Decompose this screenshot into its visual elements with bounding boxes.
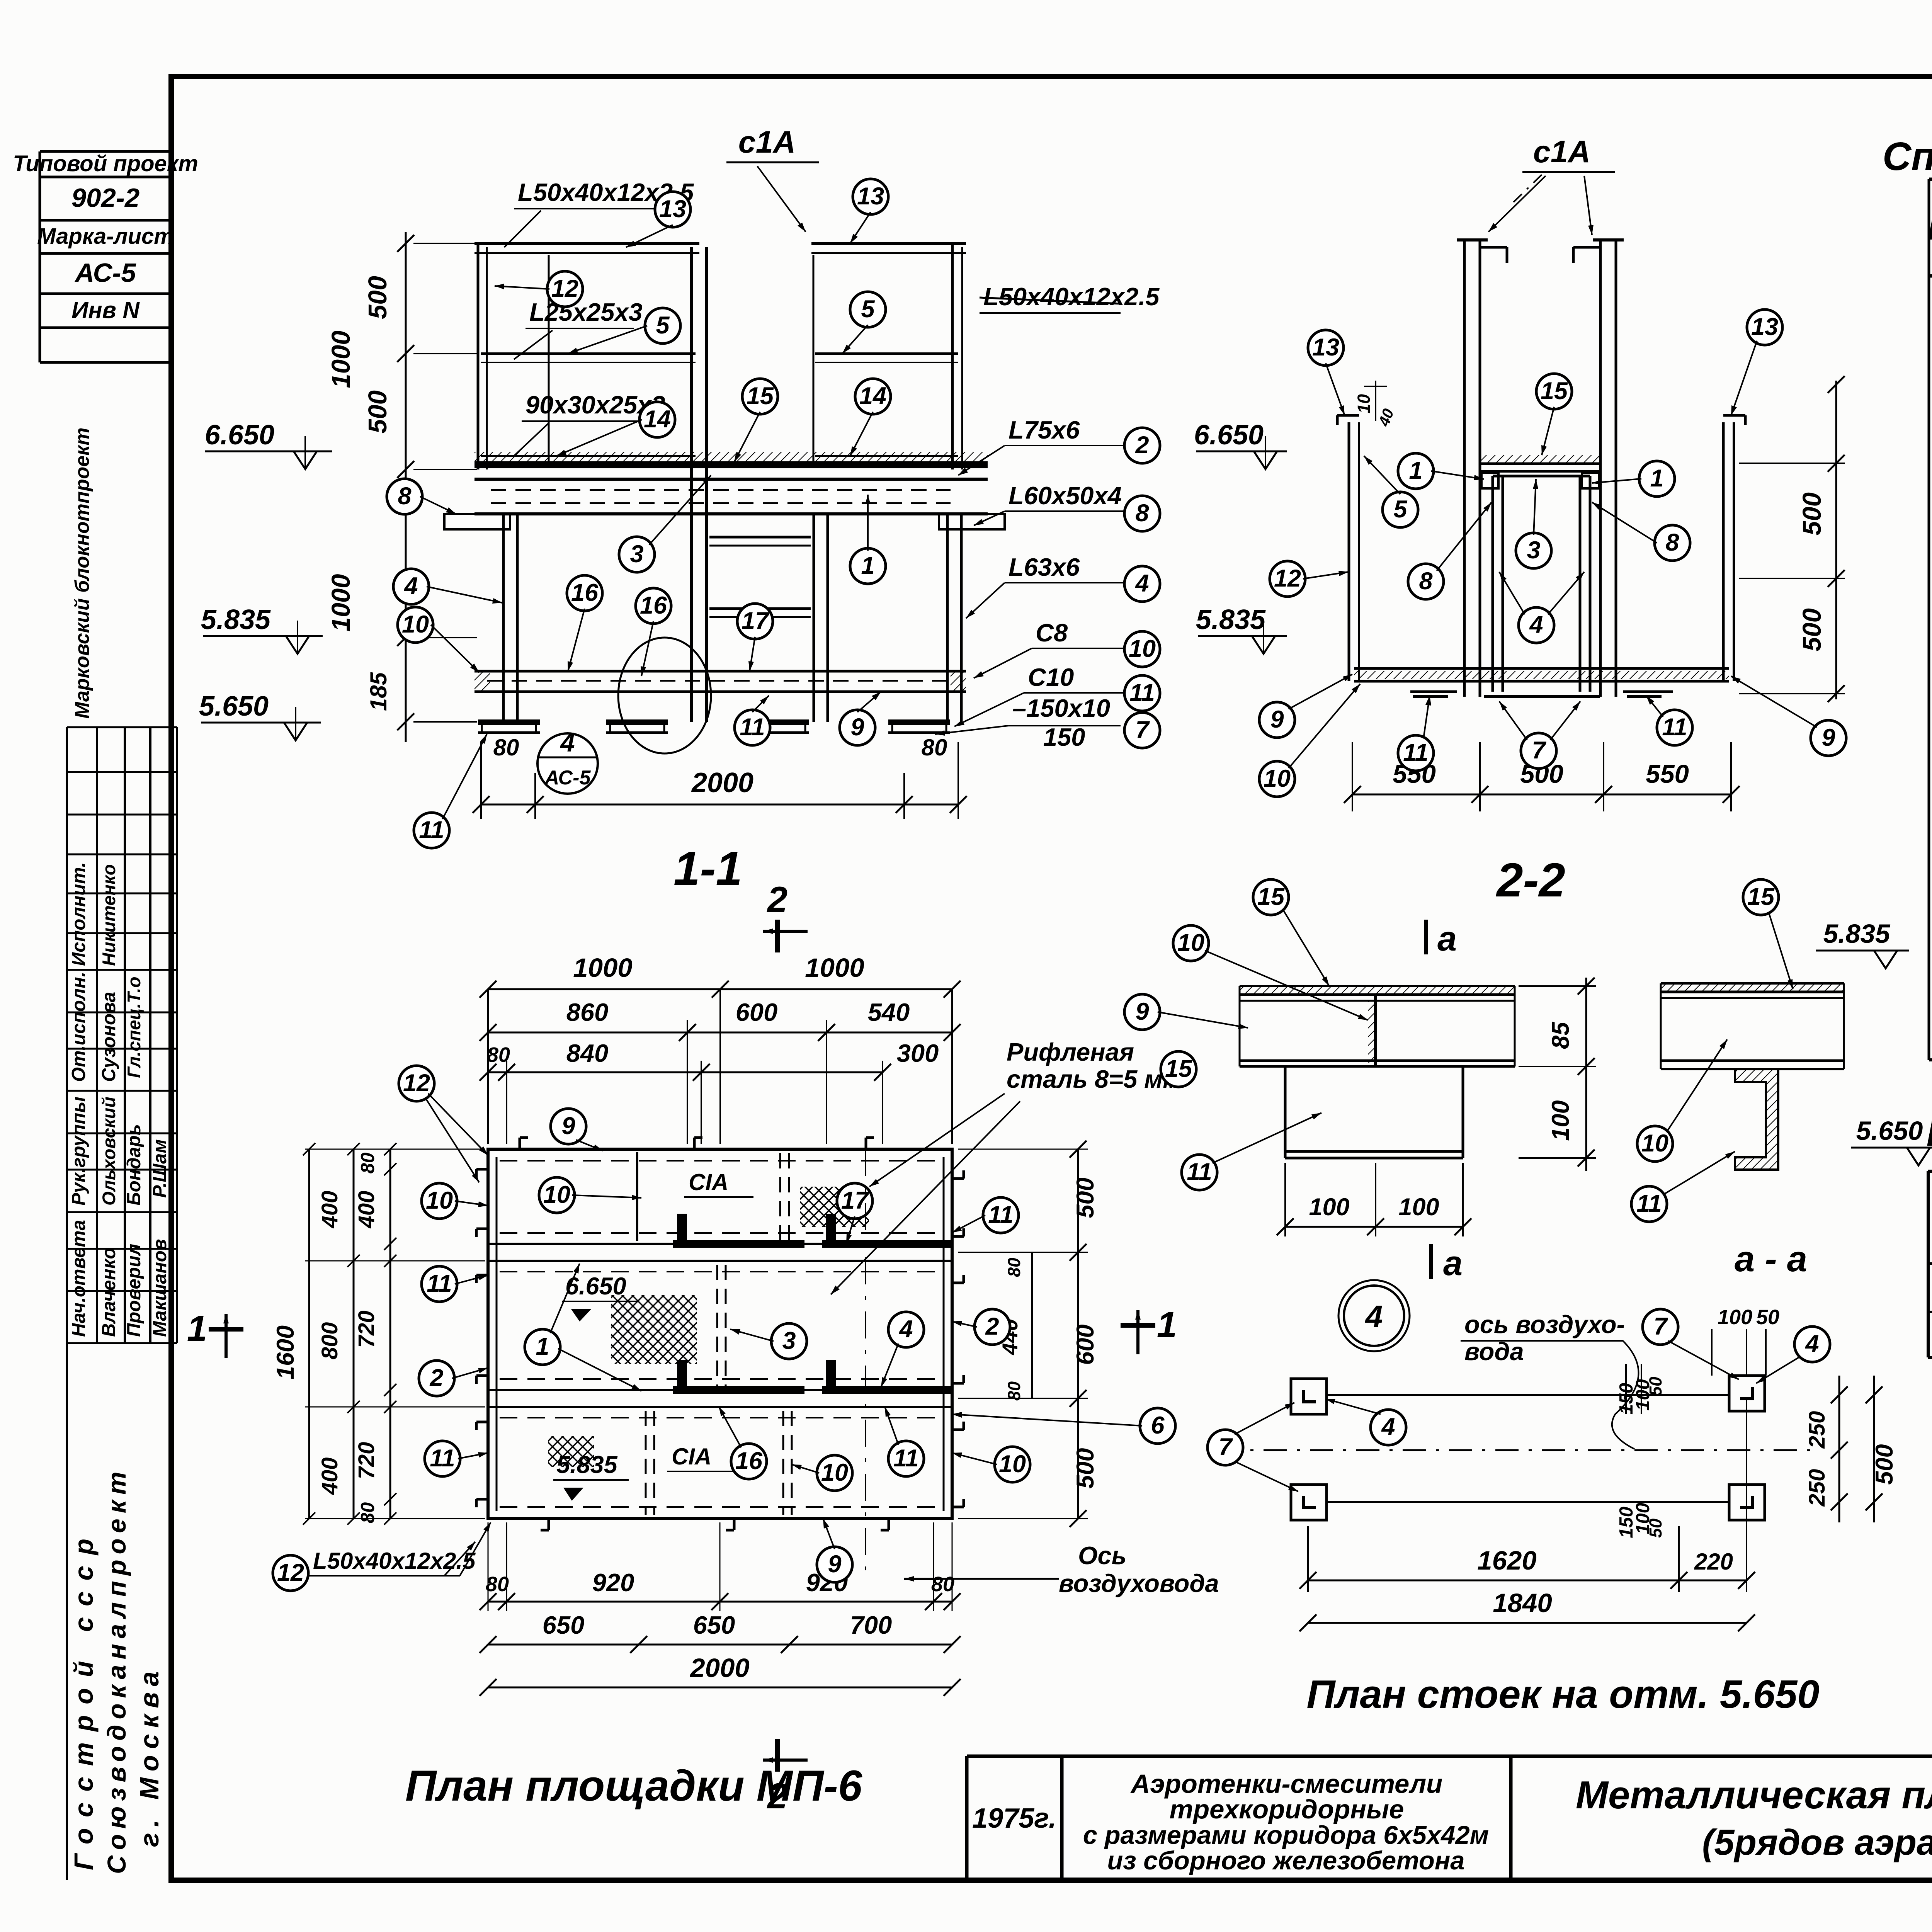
svg-text:11: 11 (419, 816, 444, 844)
svg-text:902-2: 902-2 (71, 183, 139, 213)
svg-text:1-1: 1-1 (673, 842, 742, 895)
svg-text:400: 400 (354, 1191, 379, 1229)
svg-text:CIA: CIA (689, 1169, 728, 1195)
svg-text:550: 550 (1646, 760, 1689, 789)
svg-text:2: 2 (985, 1313, 999, 1340)
svg-text:3: 3 (1527, 537, 1540, 564)
svg-text:7: 7 (1135, 716, 1150, 743)
svg-text:9: 9 (828, 1551, 841, 1578)
svg-text:80: 80 (487, 1043, 510, 1066)
svg-text:500: 500 (363, 390, 392, 434)
svg-text:500: 500 (1871, 1444, 1898, 1485)
svg-text:720: 720 (354, 1311, 379, 1348)
svg-text:250: 250 (1804, 1469, 1830, 1507)
svg-text:5.835: 5.835 (556, 1451, 618, 1478)
svg-text:12: 12 (551, 275, 578, 302)
svg-text:Марка: Марка (1928, 215, 1932, 246)
svg-text:2: 2 (767, 879, 787, 920)
svg-text:10: 10 (1641, 1130, 1668, 1157)
svg-text:9: 9 (850, 714, 864, 741)
svg-text:3: 3 (782, 1327, 796, 1354)
svg-text:11: 11 (988, 1201, 1013, 1228)
svg-text:80: 80 (1004, 1258, 1024, 1277)
svg-text:12: 12 (277, 1559, 304, 1586)
svg-text:2: 2 (1135, 432, 1149, 459)
svg-text:11: 11 (893, 1445, 918, 1472)
svg-text:(5рядов аэраторов): (5рядов аэраторов) (1702, 1822, 1932, 1862)
svg-text:1: 1 (861, 552, 874, 579)
svg-text:80: 80 (922, 735, 947, 760)
svg-text:720: 720 (354, 1442, 379, 1480)
svg-text:Марка-лист: Марка-лист (37, 224, 174, 249)
svg-text:15: 15 (1541, 378, 1568, 405)
svg-text:16: 16 (640, 592, 667, 619)
svg-text:185: 185 (366, 672, 391, 711)
svg-text:80: 80 (486, 1573, 509, 1596)
svg-text:14: 14 (859, 383, 886, 410)
svg-text:6: 6 (1151, 1412, 1165, 1439)
svg-text:L63х6: L63х6 (1009, 553, 1080, 581)
svg-text:4: 4 (1381, 1413, 1395, 1440)
svg-text:из сборного железобетона: из сборного железобетона (1107, 1846, 1464, 1875)
svg-text:Ось: Ось (1078, 1541, 1126, 1570)
svg-text:4: 4 (560, 728, 575, 757)
svg-text:11: 11 (1636, 1190, 1662, 1217)
svg-text:1: 1 (536, 1333, 549, 1360)
svg-text:a: a (1443, 1244, 1463, 1283)
svg-text:АС-5: АС-5 (74, 258, 136, 288)
svg-text:7: 7 (1218, 1434, 1233, 1461)
svg-text:17: 17 (742, 607, 770, 634)
svg-text:80: 80 (931, 1573, 954, 1596)
svg-text:100: 100 (1398, 1194, 1439, 1221)
svg-text:Выборка металла на площадку мп: Выборка металла на площадку мп-6 (1927, 1111, 1932, 1154)
svg-text:500: 500 (1072, 1177, 1099, 1218)
svg-text:c1A: c1A (738, 125, 796, 160)
svg-text:c1A: c1A (1533, 134, 1591, 169)
svg-text:2-2: 2-2 (1496, 854, 1565, 907)
svg-text:L50х40х12х2.5: L50х40х12х2.5 (983, 282, 1160, 311)
svg-text:10: 10 (402, 611, 429, 638)
svg-text:220: 220 (1694, 1549, 1733, 1575)
svg-text:План стоек на отм. 5.650: План стоек на отм. 5.650 (1306, 1672, 1819, 1716)
svg-text:4: 4 (1364, 1299, 1383, 1334)
svg-text:12: 12 (403, 1070, 430, 1097)
svg-text:–150х10: –150х10 (1012, 694, 1110, 722)
svg-text:500: 500 (1798, 492, 1827, 536)
svg-text:6.650: 6.650 (1194, 420, 1264, 451)
svg-text:С10: С10 (1028, 663, 1074, 691)
svg-text:Госстрой ссср: Госстрой ссср (69, 1528, 99, 1870)
svg-text:10: 10 (426, 1187, 453, 1214)
svg-text:L75х6: L75х6 (1009, 416, 1080, 444)
svg-text:50: 50 (1646, 1519, 1665, 1538)
svg-text:1: 1 (187, 1308, 207, 1349)
svg-text:5: 5 (861, 296, 875, 323)
svg-text:15: 15 (1165, 1055, 1192, 1082)
svg-text:800: 800 (317, 1322, 342, 1360)
svg-text:Сузонова: Сузонова (99, 992, 119, 1082)
svg-text:50: 50 (1646, 1377, 1665, 1396)
svg-text:12: 12 (1274, 565, 1301, 592)
svg-text:85: 85 (1547, 1022, 1574, 1049)
svg-text:500: 500 (363, 276, 392, 319)
svg-text:100: 100 (1309, 1194, 1349, 1221)
svg-text:80: 80 (1004, 1381, 1024, 1401)
svg-text:250: 250 (1804, 1411, 1830, 1449)
svg-text:г. Москва: г. Москва (134, 1665, 164, 1847)
svg-text:воздуховода: воздуховода (1059, 1569, 1219, 1597)
svg-text:Влаченко: Влаченко (99, 1248, 119, 1337)
svg-text:Типовой проект: Типовой проект (13, 151, 198, 176)
svg-text:10: 10 (1264, 765, 1291, 792)
svg-text:600: 600 (736, 998, 777, 1026)
svg-text:1: 1 (1650, 465, 1663, 492)
svg-text:8: 8 (1665, 529, 1679, 556)
svg-text:Инв N: Инв N (71, 297, 140, 323)
svg-text:1840: 1840 (1493, 1588, 1552, 1618)
svg-text:С8: С8 (1036, 619, 1068, 647)
svg-text:600: 600 (1072, 1324, 1099, 1365)
svg-text:Проверил: Проверил (124, 1244, 145, 1337)
svg-text:8: 8 (1135, 500, 1149, 527)
svg-text:14: 14 (644, 406, 671, 433)
svg-text:400: 400 (317, 1458, 342, 1495)
svg-text:80: 80 (493, 735, 519, 760)
svg-text:11: 11 (430, 1445, 455, 1472)
svg-text:Гл.спец.Т.о: Гл.спец.Т.о (124, 977, 144, 1078)
svg-text:540: 540 (868, 998, 910, 1026)
svg-text:13: 13 (1751, 313, 1778, 340)
svg-text:5: 5 (1393, 496, 1407, 523)
svg-text:с размерами коридора 6х5х42м: с размерами коридора 6х5х42м (1083, 1821, 1489, 1850)
svg-text:11: 11 (740, 714, 765, 741)
svg-text:4: 4 (1529, 611, 1543, 638)
svg-text:10: 10 (1177, 929, 1204, 956)
svg-text:10: 10 (1129, 635, 1156, 662)
svg-text:Макшанов: Макшанов (150, 1239, 170, 1337)
svg-text:80: 80 (357, 1153, 378, 1174)
svg-text:1600: 1600 (272, 1325, 299, 1379)
svg-text:11: 11 (1187, 1158, 1212, 1185)
svg-text:9: 9 (1270, 706, 1284, 733)
svg-text:5.650: 5.650 (1856, 1116, 1923, 1146)
svg-text:11: 11 (1662, 714, 1687, 741)
svg-text:5.835: 5.835 (1196, 604, 1266, 635)
svg-text:11: 11 (1129, 679, 1155, 706)
svg-text:Металлическая площадка мп-6: Металлическая площадка мп-6 (1576, 1774, 1932, 1817)
svg-text:Бондарь: Бондарь (124, 1124, 145, 1206)
svg-text:ось воздухо-: ось воздухо- (1464, 1310, 1625, 1338)
svg-text:2000: 2000 (691, 767, 753, 798)
svg-text:8: 8 (1419, 568, 1432, 595)
svg-text:15: 15 (1257, 883, 1285, 910)
svg-text:CIA: CIA (672, 1444, 711, 1469)
svg-text:5: 5 (656, 312, 670, 339)
svg-text:13: 13 (1312, 334, 1339, 361)
svg-text:a - a: a - a (1735, 1238, 1807, 1279)
svg-text:13: 13 (857, 183, 884, 210)
svg-text:Союзводоканалпроект: Союзводоканалпроект (102, 1466, 131, 1874)
svg-text:Рифленая: Рифленая (1007, 1038, 1134, 1066)
svg-text:500: 500 (1798, 608, 1827, 651)
svg-text:Рук.группы: Рук.группы (68, 1097, 89, 1206)
svg-text:L50х40х12х2.5: L50х40х12х2.5 (313, 1548, 476, 1574)
svg-text:Нач.ответа: Нач.ответа (68, 1220, 89, 1337)
svg-text:Спецификация металла на 1 ма: Спецификация металла на 1 марку (1883, 134, 1932, 179)
svg-text:План площадки МП-6: План площадки МП-6 (405, 1762, 862, 1810)
svg-text:840: 840 (566, 1039, 608, 1067)
svg-text:9: 9 (561, 1112, 575, 1139)
svg-text:5.650: 5.650 (199, 691, 269, 722)
svg-text:9: 9 (1821, 724, 1835, 751)
svg-text:10: 10 (999, 1451, 1026, 1478)
svg-text:1620: 1620 (1477, 1546, 1537, 1575)
svg-text:3: 3 (630, 541, 643, 568)
svg-text:1000: 1000 (573, 953, 633, 983)
svg-text:7: 7 (1653, 1313, 1668, 1340)
svg-text:4: 4 (1134, 570, 1149, 597)
svg-text:трехкоридорные: трехкоридорные (1170, 1794, 1404, 1824)
svg-text:16: 16 (735, 1447, 763, 1475)
svg-text:10: 10 (1354, 394, 1374, 413)
svg-text:1: 1 (1409, 457, 1422, 484)
svg-text:1975г.: 1975г. (972, 1803, 1056, 1834)
svg-text:16: 16 (571, 579, 599, 606)
svg-text:13: 13 (659, 196, 686, 223)
svg-text:400: 400 (317, 1191, 342, 1229)
svg-text:10: 10 (543, 1181, 570, 1208)
svg-text:2000: 2000 (689, 1653, 750, 1683)
svg-text:Ольховский: Ольховский (99, 1097, 119, 1206)
svg-text:5.835: 5.835 (1823, 919, 1891, 949)
svg-text:700: 700 (850, 1611, 892, 1639)
svg-text:9: 9 (1135, 998, 1149, 1025)
svg-text:150: 150 (1043, 723, 1085, 751)
svg-text:5.835: 5.835 (201, 604, 271, 635)
svg-text:500: 500 (1072, 1448, 1099, 1488)
svg-text:10: 10 (821, 1459, 848, 1486)
svg-text:Исполнит.: Исполнит. (68, 862, 89, 966)
svg-text:сталь 8=5 мм: сталь 8=5 мм (1007, 1065, 1181, 1093)
svg-text:11: 11 (427, 1270, 452, 1297)
svg-text:Р.Шам: Р.Шам (150, 1139, 170, 1198)
svg-text:1000: 1000 (327, 330, 355, 388)
svg-text:4: 4 (403, 573, 418, 600)
svg-text:920: 920 (592, 1568, 634, 1597)
svg-text:Никитенко: Никитенко (99, 864, 119, 966)
svg-text:L60х50х4: L60х50х4 (1009, 481, 1122, 510)
svg-text:2: 2 (429, 1364, 443, 1391)
svg-text:11: 11 (1403, 739, 1428, 766)
svg-text:650: 650 (693, 1611, 735, 1639)
svg-text:Марковский блокнотпроект: Марковский блокнотпроект (71, 427, 94, 719)
svg-text:7: 7 (1532, 737, 1546, 764)
svg-text:4: 4 (1804, 1330, 1819, 1357)
svg-text:8: 8 (398, 483, 411, 510)
svg-text:4: 4 (898, 1316, 913, 1343)
svg-text:80: 80 (357, 1502, 378, 1524)
svg-text:15: 15 (1747, 883, 1775, 910)
svg-text:100: 100 (1718, 1306, 1752, 1329)
svg-text:15: 15 (747, 383, 774, 410)
svg-text:6.650: 6.650 (205, 420, 274, 451)
svg-text:1000: 1000 (805, 953, 864, 983)
svg-text:650: 650 (543, 1611, 584, 1639)
svg-text:300: 300 (897, 1039, 939, 1067)
svg-text:1000: 1000 (327, 574, 355, 631)
svg-text:50: 50 (1756, 1306, 1779, 1329)
svg-text:100: 100 (1547, 1100, 1574, 1141)
svg-text:От.исполн.: От.исполн. (68, 972, 89, 1082)
svg-text:1: 1 (1157, 1304, 1177, 1345)
svg-text:a: a (1437, 920, 1457, 958)
svg-text:АС-5: АС-5 (544, 767, 591, 789)
svg-text:860: 860 (566, 998, 608, 1026)
svg-text:L25х25х3: L25х25х3 (529, 298, 643, 326)
